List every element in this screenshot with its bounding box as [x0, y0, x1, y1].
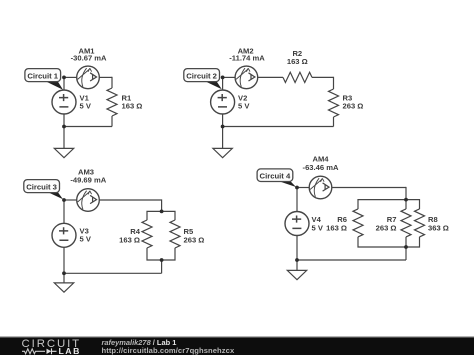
svg-text:-49.69 mA: -49.69 mA — [70, 176, 106, 185]
svg-text:-63.46 mA: -63.46 mA — [303, 163, 339, 172]
ammeter AM2 — [235, 66, 258, 89]
svg-text:263 Ω: 263 Ω — [343, 101, 364, 110]
wire V2 to bottom node c2 — [222, 114, 224, 127]
logo waveform resistor — [22, 349, 45, 354]
callout Circuit 2 pointer — [204, 81, 222, 90]
node A c1 top — [62, 76, 66, 80]
wire bottom rail c1 — [64, 126, 112, 128]
callout Circuit 3 pointer — [44, 190, 63, 199]
wire node3 to V3 — [63, 200, 65, 223]
ground c3 stem — [63, 273, 65, 283]
wire node4 to AM4 — [297, 187, 309, 189]
svg-text:Circuit 1: Circuit 1 — [27, 72, 58, 81]
resistor R8 — [415, 209, 425, 237]
svg-text:5 V: 5 V — [238, 101, 250, 110]
ammeter AM1 — [77, 66, 100, 89]
callout Circuit 4 pointer — [278, 181, 297, 187]
callout Circuit 4 box — [257, 169, 293, 182]
wire node4 to V4 — [296, 188, 298, 212]
wire corner down to parallel top node c3 — [161, 199, 163, 211]
wire AM4 to corner c4 — [332, 187, 406, 189]
footer bar background — [0, 337, 474, 355]
node A c2 top — [221, 76, 225, 80]
wire node2 to AM2 — [223, 76, 236, 78]
callout Circuit 3 box — [24, 180, 60, 193]
resistor R3 — [329, 89, 339, 117]
wire bottom rail c4 — [297, 259, 406, 261]
svg-text:-30.67 mA: -30.67 mA — [71, 54, 107, 63]
wire corner down to parallel top node c4 — [405, 187, 407, 200]
node B c1 bottom — [62, 125, 66, 129]
wire parallel bottom node down c3 — [161, 260, 163, 273]
node C c4 parallel top — [404, 198, 408, 202]
ammeter AM4 — [309, 176, 332, 199]
resistor R4 — [142, 220, 152, 248]
ground c1 — [54, 148, 73, 157]
wire parallel bottom node down c4 — [405, 247, 407, 260]
svg-text:263 Ω: 263 Ω — [376, 223, 397, 232]
callout Circuit 1 box — [25, 69, 61, 82]
ground c2 — [213, 148, 232, 157]
svg-text:163 Ω: 163 Ω — [326, 223, 347, 232]
wire AM1 to right corner — [99, 76, 112, 78]
wire R1 to bottom corner — [111, 116, 113, 127]
resistor R7 — [401, 209, 411, 237]
node B c3 left bottom — [62, 271, 66, 275]
node A c4 left top — [295, 186, 299, 190]
wire AM2 to R2 — [258, 76, 283, 78]
wire V3 to bottom rail c3 — [63, 247, 65, 273]
voltage source V3 — [52, 223, 76, 247]
wire R2 to top-right corner — [312, 76, 334, 78]
wire node3 to AM3 — [64, 199, 77, 201]
node B c4 left bottom — [295, 258, 299, 262]
node A c3 left top — [62, 198, 66, 202]
svg-text:5 V: 5 V — [80, 235, 92, 244]
resistor R2 — [283, 72, 312, 82]
callout Circuit 1 pointer — [45, 81, 63, 90]
svg-text:Circuit 4: Circuit 4 — [260, 172, 291, 181]
svg-text:http://circuitlab.com/cr7qghsn: http://circuitlab.com/cr7qghsnehzcx — [102, 346, 235, 355]
svg-text:LAB: LAB — [59, 346, 81, 355]
voltage source V2 — [211, 90, 235, 114]
wire top bar R4-R5 — [147, 211, 175, 220]
svg-text:5 V: 5 V — [312, 223, 324, 232]
resistor R1 — [107, 88, 117, 116]
wire R3 to bottom corner — [333, 117, 335, 127]
wire bottom rail c2 — [223, 126, 334, 128]
svg-text:5 V: 5 V — [80, 101, 92, 110]
wire R7 bottom stub — [405, 237, 407, 247]
svg-text:-11.74 mA: -11.74 mA — [229, 54, 265, 63]
svg-text:263 Ω: 263 Ω — [184, 236, 205, 245]
wire top bar R6-R8 — [358, 200, 420, 209]
svg-text:Circuit 2: Circuit 2 — [186, 72, 217, 81]
wire bottom bar R4-R5 — [147, 248, 175, 260]
ground c2 stem — [222, 127, 224, 149]
callout Circuit 2 box — [184, 69, 220, 82]
wire bottom bar R6-R8 — [358, 237, 420, 247]
wire node1 to V1 — [63, 77, 65, 90]
wire V1 to bottom node — [63, 114, 65, 127]
logo diode — [47, 349, 52, 354]
svg-text:163 Ω: 163 Ω — [287, 57, 308, 66]
resistor R6 — [353, 209, 363, 237]
svg-text:Circuit 3: Circuit 3 — [26, 183, 57, 192]
svg-text:363 Ω: 363 Ω — [428, 223, 449, 232]
wire corner down to R3 — [333, 77, 335, 89]
wire R7 top stub — [405, 200, 407, 209]
node D c3 parallel bottom — [160, 258, 164, 262]
resistor R5 — [170, 220, 180, 248]
ground c4 stem — [296, 260, 298, 270]
wire bottom rail c3 — [64, 272, 162, 274]
wire V4 to bottom rail c4 — [296, 236, 298, 261]
wire node1 to AM1 — [64, 76, 77, 78]
ground c1 stem — [63, 127, 65, 149]
ammeter AM3 — [77, 189, 100, 212]
wire node2 to V2 — [222, 77, 224, 90]
wire right corner down to R1 — [111, 77, 113, 88]
node D c4 parallel bottom — [404, 245, 408, 249]
ground c4 — [287, 270, 306, 279]
voltage source V1 — [52, 90, 76, 114]
svg-text:163 Ω: 163 Ω — [119, 236, 140, 245]
node B c2 bottom — [221, 125, 225, 129]
ground c3 — [54, 283, 73, 292]
wire AM3 to corner c3 — [99, 199, 161, 201]
voltage source V4 — [285, 212, 309, 236]
svg-text:163 Ω: 163 Ω — [122, 101, 143, 110]
node C c3 parallel top — [160, 210, 164, 214]
